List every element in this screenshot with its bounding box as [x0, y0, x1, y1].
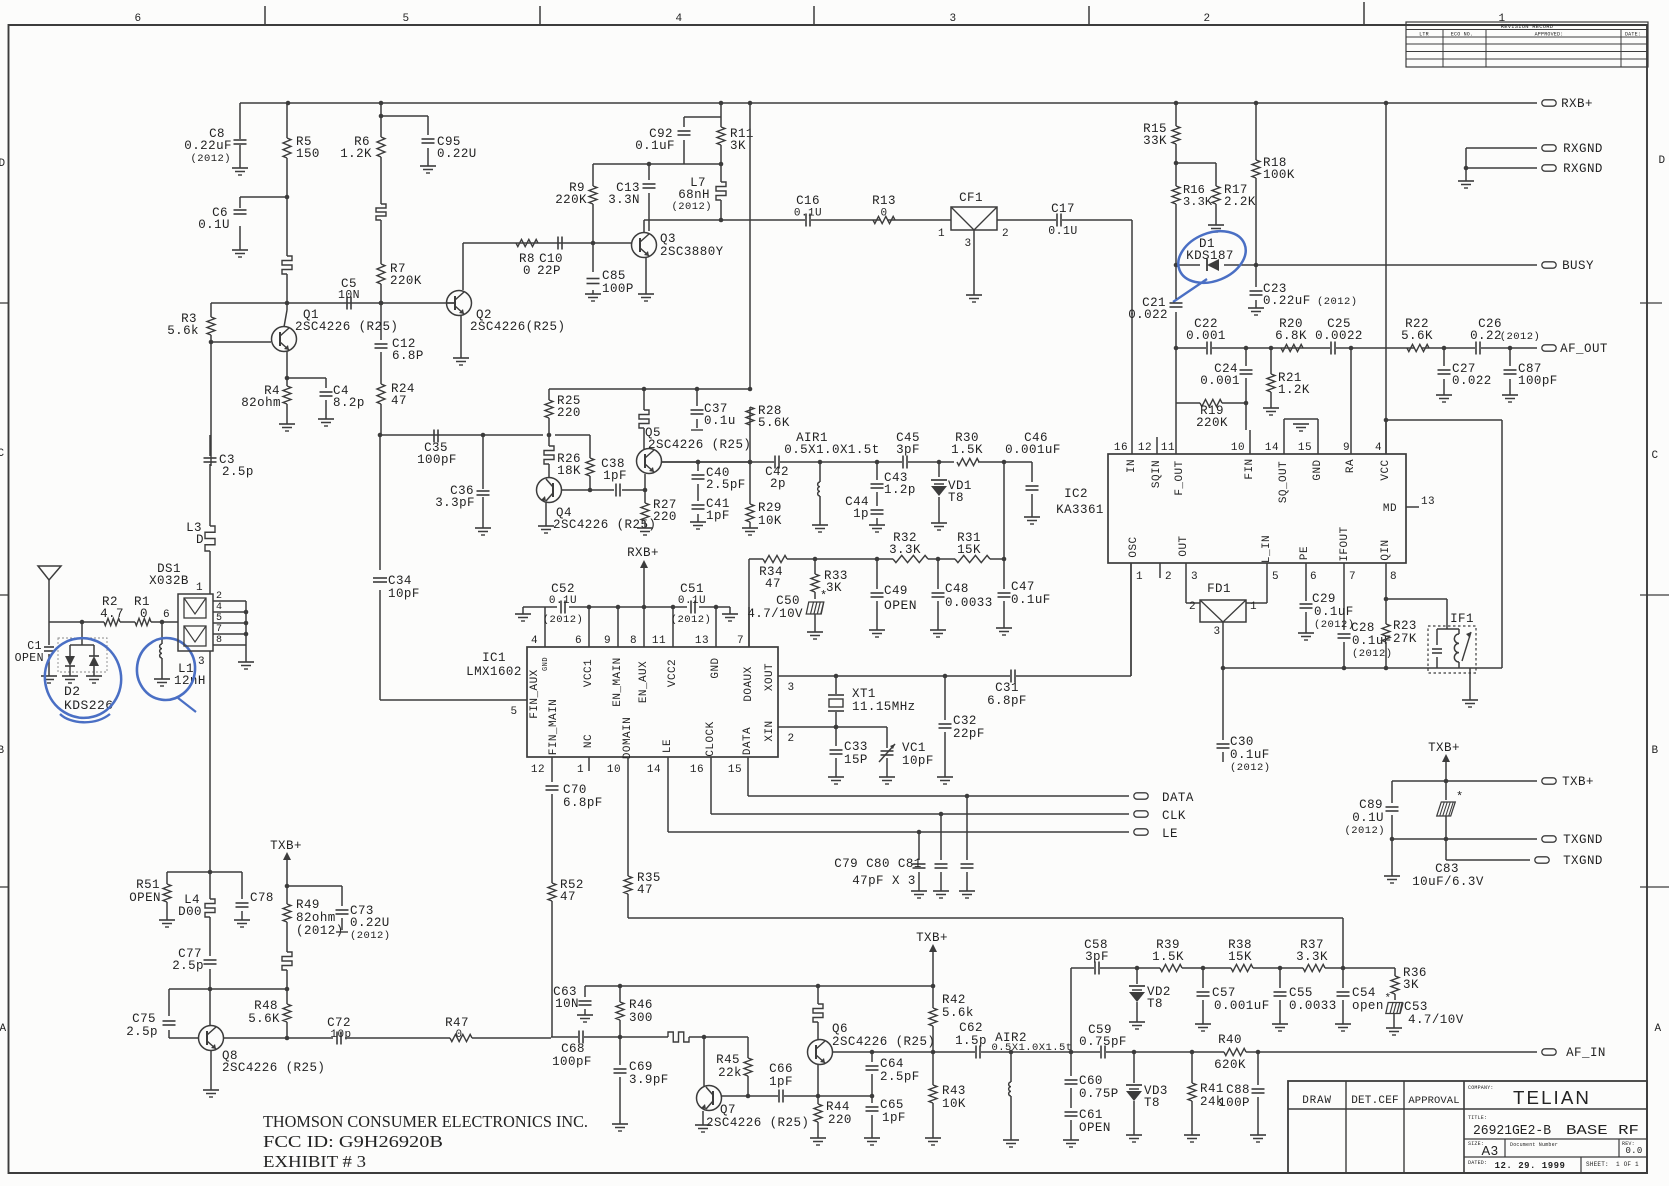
- svg-text:100pF: 100pF: [417, 453, 457, 467]
- IC1 top pin stubs: [545, 607, 749, 647]
- svg-text:C75: C75: [132, 1012, 156, 1026]
- wire TXB+ line right: [1392, 781, 1537, 803]
- ferrite bead below R5: [286, 197, 288, 303]
- svg-text:SHEET:: SHEET:: [1586, 1161, 1609, 1168]
- resistor R35: [624, 876, 632, 894]
- svg-text:REVISION RECORD: REVISION RECORD: [1501, 23, 1554, 30]
- wire QIN node to IF1: [1386, 599, 1447, 629]
- svg-text:220: 220: [653, 510, 677, 524]
- svg-text:open: open: [1352, 999, 1384, 1013]
- svg-text:220: 220: [557, 406, 581, 420]
- ground below C87: [1502, 394, 1518, 396]
- ground below C54: [1335, 1023, 1351, 1025]
- ground below C78: [234, 919, 250, 921]
- svg-text:C: C: [0, 448, 5, 460]
- capacitor C85: [592, 243, 594, 294]
- svg-text:6.8pF: 6.8pF: [563, 796, 603, 810]
- svg-text:FCC ID: G9H26920B: FCC ID: G9H26920B: [263, 1132, 443, 1151]
- resistor R51 OPEN: [166, 872, 168, 920]
- svg-text:0.1uF: 0.1uF: [635, 139, 675, 153]
- svg-text:0.22uF: 0.22uF: [184, 139, 232, 153]
- wire C75 junction line y=989: [169, 988, 287, 990]
- svg-text:NC: NC: [583, 734, 595, 748]
- wire left long vertical x=210: [209, 464, 211, 989]
- svg-text:DATA: DATA: [1162, 791, 1194, 805]
- svg-text:3K: 3K: [826, 581, 842, 595]
- connector RXB+ top right: [1542, 100, 1556, 106]
- svg-text:5.6k: 5.6k: [167, 324, 199, 338]
- svg-text:FIN_MAIN: FIN_MAIN: [548, 699, 560, 755]
- capacitor C49 OPEN: [876, 559, 878, 630]
- svg-text:0.0033: 0.0033: [1289, 999, 1337, 1013]
- node TXB+ arrow middle: [932, 952, 934, 986]
- svg-text:220K: 220K: [555, 193, 587, 207]
- svg-text:(2012): (2012): [1314, 619, 1355, 631]
- svg-text:0.1uF: 0.1uF: [1011, 593, 1051, 607]
- revision record table: [1406, 22, 1648, 67]
- svg-text:TELIAN: TELIAN: [1513, 1088, 1591, 1108]
- svg-text:2SC3880Y: 2SC3880Y: [660, 245, 724, 259]
- DS1 right pin stubs: [213, 601, 246, 662]
- svg-text:18K: 18K: [557, 464, 581, 478]
- svg-text:6.8pF: 6.8pF: [987, 694, 1027, 708]
- capacitor C28: [1338, 633, 1351, 635]
- svg-text:A: A: [1654, 1023, 1661, 1035]
- svg-text:0.022: 0.022: [1452, 374, 1492, 388]
- svg-text:B: B: [0, 745, 5, 757]
- connector TXB+ right: [1542, 778, 1556, 784]
- inductor L7 68nH: [720, 164, 722, 220]
- svg-text:*: *: [820, 589, 828, 603]
- svg-text:QIN: QIN: [1380, 539, 1392, 560]
- svg-text:(2012): (2012): [1500, 331, 1541, 343]
- IC2 ground hook pins 14 15: [1284, 419, 1318, 424]
- capacitor C4: [287, 378, 326, 419]
- svg-text:100P: 100P: [1218, 1096, 1250, 1110]
- svg-text:OPEN: OPEN: [884, 598, 917, 613]
- resistor R39: [1160, 964, 1182, 971]
- resistor R40: [1224, 1048, 1246, 1055]
- svg-text:C48: C48: [945, 582, 969, 596]
- svg-text:APPROVAL: APPROVAL: [1408, 1095, 1459, 1107]
- svg-text:KA3361: KA3361: [1056, 503, 1104, 517]
- wire CF1 pin3 to ground: [973, 230, 975, 295]
- svg-text:DRAW: DRAW: [1302, 1095, 1332, 1107]
- svg-text:BUSY: BUSY: [1562, 259, 1594, 273]
- ground below IF1: [1462, 699, 1478, 701]
- ground below VC1: [879, 776, 895, 778]
- ground below D2 right: [86, 675, 102, 677]
- zener diode VD1 T8: [938, 462, 940, 523]
- capacitor C23: [1255, 265, 1257, 308]
- ground below C46: [1024, 516, 1040, 518]
- inductor L1 12nH: [161, 622, 163, 679]
- ground below C41: [690, 521, 706, 523]
- capacitor C46: [1004, 462, 1032, 517]
- capacitor C89: [1386, 806, 1399, 808]
- wire C58 filter line y=968: [1071, 968, 1395, 1052]
- svg-text:8: 8: [216, 635, 222, 646]
- capacitor C58: [1094, 962, 1096, 975]
- svg-text:13: 13: [1421, 496, 1435, 508]
- svg-text:DATED:: DATED:: [1468, 1160, 1487, 1166]
- wire IF filter line y=462: [661, 461, 1004, 463]
- zone tick marks right edge: [1640, 302, 1662, 304]
- svg-text:TXGND: TXGND: [1563, 833, 1603, 847]
- svg-text:C29: C29: [1312, 592, 1336, 606]
- ferrite bead above R48: [282, 952, 292, 970]
- transistor Q3 2SC3880Y: [632, 233, 657, 258]
- resistor R45: [744, 1058, 752, 1076]
- svg-text:10K: 10K: [758, 514, 782, 528]
- ferrite bead TX: [1445, 781, 1447, 800]
- svg-text:C51: C51: [680, 582, 704, 596]
- connector LE: [1134, 829, 1148, 835]
- capacitor C21: [1255, 264, 1257, 266]
- resistor R52: [548, 883, 556, 901]
- svg-text:C54: C54: [1352, 986, 1376, 1000]
- ground below R29: [742, 527, 758, 529]
- svg-text:10N: 10N: [555, 997, 579, 1011]
- capacitor C17: [1056, 214, 1058, 227]
- capacitor C32: [944, 676, 946, 777]
- svg-text:T8: T8: [1147, 997, 1163, 1011]
- svg-text:COMPANY:: COMPANY:: [1468, 1085, 1494, 1091]
- svg-text:C47: C47: [1011, 580, 1035, 594]
- svg-text:XT1: XT1: [852, 687, 876, 701]
- transistor Q2 2SC4226: [447, 291, 472, 316]
- svg-text:0.1uF: 0.1uF: [1314, 605, 1354, 619]
- svg-text:3K: 3K: [730, 139, 746, 153]
- svg-text:1pF: 1pF: [882, 1111, 906, 1125]
- svg-text:0.75pF: 0.75pF: [1079, 1035, 1127, 1049]
- svg-text:F_OUT: F_OUT: [1174, 460, 1186, 495]
- capacitor C64: [871, 1052, 873, 1096]
- svg-text:Document Number: Document Number: [1510, 1142, 1558, 1148]
- svg-text:AF_IN: AF_IN: [1566, 1046, 1606, 1060]
- svg-text:C62: C62: [959, 1021, 983, 1035]
- svg-text:EN_MAIN: EN_MAIN: [612, 657, 624, 706]
- svg-text:11.15MHz: 11.15MHz: [852, 700, 916, 714]
- svg-text:1: 1: [196, 582, 203, 594]
- svg-text:THOMSON CONSUMER ELECTRONICS I: THOMSON CONSUMER ELECTRONICS INC.: [263, 1112, 588, 1131]
- wire RXGND stubs: [1466, 148, 1537, 181]
- svg-text:47: 47: [560, 890, 576, 904]
- svg-text:(2012): (2012): [1230, 762, 1271, 774]
- svg-text:15: 15: [1298, 442, 1312, 454]
- svg-text:IN: IN: [1126, 459, 1138, 473]
- svg-text:TXB+: TXB+: [1562, 775, 1594, 789]
- wire TXGND line 1: [1392, 838, 1537, 840]
- svg-text:0.5X1.0X1.5t: 0.5X1.0X1.5t: [784, 443, 879, 457]
- resistor R36: [1394, 974, 1396, 1000]
- svg-text:0.22U: 0.22U: [437, 147, 477, 161]
- wire C35 node line y=435: [380, 434, 590, 436]
- svg-text:FIN_AUX: FIN_AUX: [529, 669, 541, 718]
- svg-text:A3: A3: [1482, 1143, 1499, 1158]
- resistor R16: [1172, 186, 1180, 204]
- wire XIN line y=727: [778, 727, 887, 745]
- svg-text:1.2p: 1.2p: [884, 483, 916, 497]
- capacitor C45: [902, 456, 904, 469]
- svg-text:150: 150: [296, 147, 320, 161]
- capacitor C70: [546, 785, 559, 787]
- wire AF line left segment: [870, 1051, 1537, 1053]
- capacitor C30: [1222, 702, 1224, 762]
- svg-text:5.6k: 5.6k: [942, 1006, 974, 1020]
- resistor R28: [746, 407, 754, 425]
- resistor R24: [377, 384, 385, 404]
- svg-text:0.1U: 0.1U: [549, 595, 577, 607]
- svg-text:OSC: OSC: [1128, 536, 1140, 557]
- svg-text:RXGND: RXGND: [1563, 142, 1603, 156]
- svg-text:3: 3: [198, 656, 205, 668]
- svg-text:3: 3: [1191, 571, 1198, 583]
- transistor Q4 2SC4226: [537, 478, 562, 503]
- resistor R32: [893, 555, 928, 562]
- svg-text:TITLE:: TITLE:: [1468, 1115, 1487, 1121]
- svg-text:(2012): (2012): [671, 614, 712, 626]
- capacitor C13: [648, 164, 650, 231]
- svg-text:3pF: 3pF: [896, 443, 920, 457]
- svg-text:OPEN: OPEN: [1079, 1121, 1111, 1135]
- svg-text:C31: C31: [995, 681, 1019, 695]
- svg-text:10K: 10K: [942, 1097, 966, 1111]
- svg-text:0.5X1.0X1.5t: 0.5X1.0X1.5t: [991, 1042, 1072, 1054]
- resistor R13: [873, 216, 895, 223]
- capacitor C37: [696, 389, 698, 428]
- svg-text:(2012): (2012): [296, 924, 344, 938]
- connector TXGND 1: [1542, 836, 1556, 842]
- ferrite bead on C68 line: [668, 1032, 689, 1042]
- svg-text:C50: C50: [776, 594, 800, 608]
- svg-text:C49: C49: [884, 584, 908, 598]
- svg-text:C57: C57: [1212, 986, 1236, 1000]
- svg-text:14: 14: [647, 764, 661, 776]
- svg-text:C32: C32: [953, 714, 977, 728]
- ground below Q3: [638, 293, 654, 295]
- svg-text:3.3K: 3.3K: [889, 543, 921, 557]
- svg-text:OUT: OUT: [1178, 535, 1190, 556]
- svg-text:0.0033: 0.0033: [945, 596, 993, 610]
- wire LE line: [668, 831, 1129, 833]
- ground below R17: [1208, 224, 1224, 226]
- svg-text:3: 3: [964, 238, 971, 250]
- svg-text:SQIN: SQIN: [1151, 460, 1163, 488]
- ground below C32: [937, 776, 953, 778]
- connector AF_OUT: [1542, 345, 1556, 351]
- resistor R18: [1255, 103, 1257, 265]
- resistor R43: [932, 1052, 934, 1138]
- svg-text:LE: LE: [1162, 827, 1178, 841]
- svg-text:8: 8: [630, 635, 637, 647]
- capacitor C31: [1010, 670, 1012, 683]
- resistor R31: [955, 555, 990, 562]
- connector BUSY: [1542, 262, 1556, 268]
- ground below C49: [869, 629, 885, 631]
- capacitor C10: [557, 237, 559, 250]
- svg-text:R46: R46: [629, 998, 653, 1012]
- wire TXB line y=986: [585, 985, 933, 987]
- resistor R8: [516, 239, 538, 246]
- svg-text:47: 47: [637, 883, 653, 897]
- ground below C53: [1386, 1027, 1402, 1029]
- svg-text:0.022: 0.022: [1128, 308, 1168, 322]
- ground left of C52: [515, 613, 531, 615]
- svg-text:C64: C64: [880, 1057, 904, 1071]
- resistor R34: [763, 555, 787, 562]
- svg-text:D: D: [1658, 155, 1665, 167]
- svg-text:KDS187: KDS187: [1186, 249, 1234, 263]
- ground below R51: [159, 919, 175, 921]
- resistor R37: [1303, 964, 1325, 971]
- svg-text:RXGND: RXGND: [1563, 162, 1603, 176]
- resistor R17: [1176, 163, 1216, 225]
- capacitor C43: [876, 462, 878, 505]
- variable capacitor VC1: [886, 745, 888, 777]
- svg-text:VC1: VC1: [902, 741, 926, 755]
- svg-text:0.1u: 0.1u: [704, 414, 736, 428]
- capacitor C81: [966, 796, 968, 891]
- svg-text:2.5pF: 2.5pF: [880, 1070, 920, 1084]
- title block: [1288, 1081, 1647, 1173]
- capacitor C44: [876, 505, 878, 525]
- ground below CF1: [966, 294, 982, 296]
- capacitor C55: [1279, 968, 1281, 1024]
- svg-text:4: 4: [531, 635, 538, 647]
- svg-text:C61: C61: [1079, 1108, 1103, 1122]
- resistor R49 82ohm: [286, 886, 288, 952]
- capacitor C73: [336, 909, 349, 911]
- blue annotation circle around D1: [1171, 222, 1254, 293]
- connector RXGND 1: [1542, 145, 1556, 151]
- svg-text:100pF: 100pF: [1518, 374, 1558, 388]
- capacitor C24: [1245, 348, 1247, 403]
- svg-text:0: 0: [455, 1029, 462, 1041]
- svg-text:1.5K: 1.5K: [951, 443, 983, 457]
- svg-text:0.75P: 0.75P: [1079, 1087, 1119, 1101]
- svg-text:BASE RF: BASE RF: [1566, 1124, 1639, 1139]
- svg-text:5: 5: [402, 13, 409, 25]
- wire Q2 collector line: [463, 242, 593, 244]
- svg-text:1: 1: [938, 228, 945, 240]
- wire F_OUT to R19: [1176, 348, 1246, 454]
- wire C46 node down to R31 line: [1003, 462, 1005, 558]
- wire CLK line: [711, 813, 1129, 815]
- ferrite bead Q4 collector: [548, 435, 550, 477]
- svg-text:1: 1: [1136, 571, 1143, 583]
- svg-text:2: 2: [1189, 601, 1196, 613]
- svg-text:3.3pF: 3.3pF: [435, 496, 475, 510]
- svg-text:0.1U: 0.1U: [678, 595, 706, 607]
- IC1 bottom pin stubs: [552, 757, 748, 876]
- ground below Q2 emitter: [453, 357, 469, 359]
- svg-text:C52: C52: [551, 582, 575, 596]
- connector TXGND 2: [1535, 857, 1549, 863]
- svg-text:10pF: 10pF: [388, 587, 420, 601]
- svg-text:R45: R45: [716, 1053, 740, 1067]
- capacitor C27: [1443, 348, 1445, 395]
- resistor R46: [619, 986, 621, 1002]
- svg-text:82ohm: 82ohm: [241, 396, 281, 410]
- svg-text:DOMAIN: DOMAIN: [622, 717, 634, 759]
- svg-text:12: 12: [1138, 442, 1152, 454]
- svg-text:XOUT: XOUT: [764, 663, 776, 691]
- svg-text:1.2K: 1.2K: [340, 147, 372, 161]
- svg-text:OPEN: OPEN: [129, 891, 161, 905]
- capacitor C3: [209, 435, 211, 456]
- ground below C65: [864, 1137, 880, 1139]
- ground below C4: [318, 418, 334, 420]
- svg-text:2.5p: 2.5p: [126, 1025, 158, 1039]
- svg-text:3.3K: 3.3K: [1296, 950, 1328, 964]
- svg-text:R13: R13: [872, 194, 896, 208]
- ground below C61: [1063, 1139, 1079, 1141]
- svg-text:11: 11: [652, 635, 666, 647]
- svg-text:GND: GND: [710, 657, 722, 678]
- ground below C44: [869, 524, 885, 526]
- svg-text:C89: C89: [1359, 798, 1383, 812]
- svg-text:15K: 15K: [1228, 950, 1252, 964]
- resistor R30: [957, 458, 979, 465]
- svg-text:220K: 220K: [1196, 416, 1228, 430]
- svg-text:2SC4226 (R25): 2SC4226 (R25): [222, 1061, 325, 1075]
- ground below R27: [637, 527, 653, 529]
- svg-text:GND: GND: [1312, 459, 1324, 480]
- svg-text:CLOCK: CLOCK: [705, 721, 717, 756]
- svg-text:C83: C83: [1435, 862, 1459, 876]
- ground below C81: [959, 890, 975, 892]
- svg-text:22pF: 22pF: [953, 727, 985, 741]
- svg-text:FIN: FIN: [1244, 458, 1256, 479]
- capacitor C8: [239, 103, 241, 168]
- ground below DS1 bus: [238, 661, 254, 663]
- diode D1 KDS187: [1207, 259, 1219, 271]
- ground RXGND: [1458, 180, 1474, 182]
- svg-text:10: 10: [1231, 442, 1245, 454]
- ground below C55: [1272, 1023, 1288, 1025]
- svg-text:1pF: 1pF: [769, 1075, 793, 1089]
- svg-text:1p: 1p: [853, 507, 869, 521]
- wire VCC IF line y=668: [1223, 667, 1502, 669]
- capacitor C80: [940, 814, 942, 891]
- svg-text:C72: C72: [327, 1016, 351, 1030]
- svg-text:CF1: CF1: [959, 191, 983, 205]
- svg-text:IF1: IF1: [1450, 612, 1474, 626]
- svg-text:7: 7: [737, 635, 744, 647]
- svg-text:47: 47: [391, 394, 407, 408]
- svg-text:LMX1602: LMX1602: [466, 665, 522, 679]
- svg-text:R49: R49: [296, 898, 320, 912]
- svg-text:5.6K: 5.6K: [1401, 329, 1433, 343]
- svg-text:C: C: [1651, 450, 1658, 462]
- resistor R48: [283, 1004, 291, 1022]
- transistor Q1 2SC4226: [211, 303, 287, 376]
- svg-text:10p: 10p: [330, 1029, 351, 1041]
- wire BUSY line: [1176, 264, 1537, 266]
- svg-text:0.22uF: 0.22uF: [1263, 294, 1311, 308]
- svg-text:B: B: [1651, 745, 1658, 757]
- svg-text:5.6K: 5.6K: [758, 416, 790, 430]
- resistor R42: [932, 986, 934, 1052]
- svg-text:0: 0: [140, 607, 148, 621]
- resistor R27: [644, 490, 646, 528]
- svg-text:22k: 22k: [718, 1066, 742, 1080]
- inductor L3: [205, 526, 215, 551]
- svg-text:R29: R29: [758, 501, 782, 515]
- antenna ANT1: [38, 566, 61, 580]
- svg-text:DATA: DATA: [742, 727, 754, 755]
